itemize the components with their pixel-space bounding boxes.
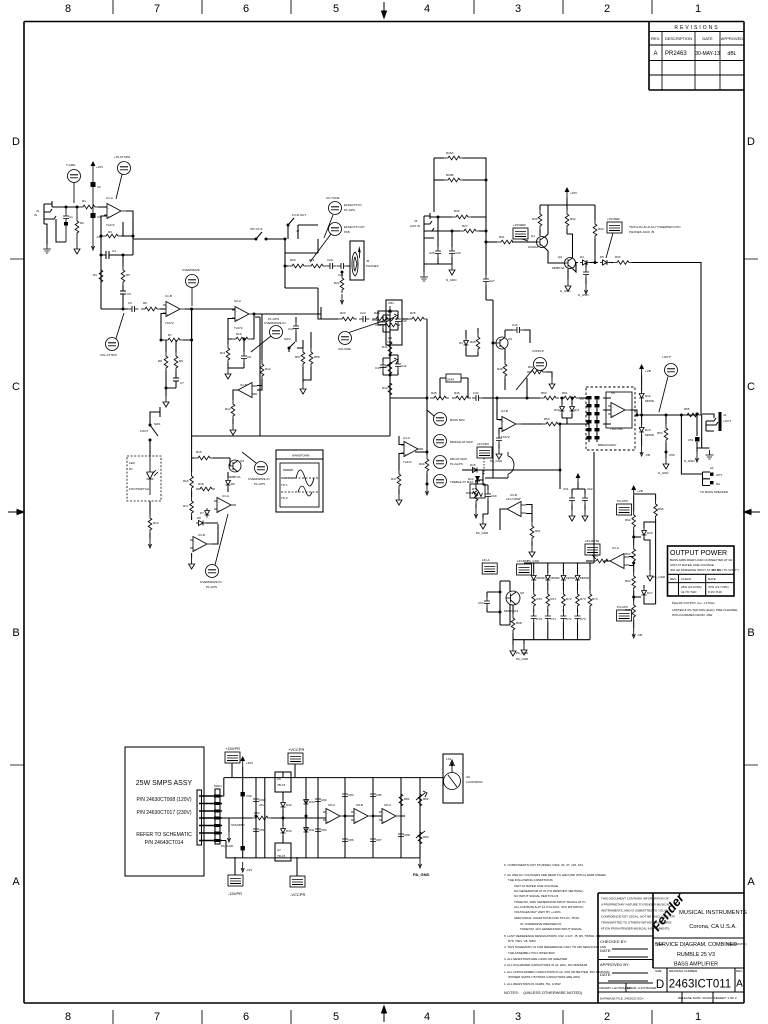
svg-text:MMSD: MMSD (566, 576, 576, 580)
svg-text:C86: C86 (348, 838, 354, 842)
svg-text:C70: C70 (537, 617, 543, 621)
svg-text:C61: C61 (563, 487, 569, 491)
svg-text:R48: R48 (497, 367, 503, 371)
svg-text:400 HZ SINEWAVE INPUT AT 400 M: 400 HZ SINEWAVE INPUT AT 400 MV (TO VOUT… (670, 568, 739, 572)
svg-text:J4: J4 (723, 413, 727, 417)
capacitor C43 (505, 323, 530, 343)
fender logo (649, 890, 688, 934)
wires fan to bus (220, 778, 252, 841)
capacitor C4 (100, 236, 134, 259)
svg-text:SW3: SW3 (284, 337, 291, 341)
vertical bus from U1B out down (191, 309, 193, 436)
svg-text:C80: C80 (259, 798, 265, 802)
waveform graph box (276, 450, 323, 512)
svg-text:C85: C85 (376, 793, 382, 797)
svg-text:R57: R57 (295, 355, 301, 359)
diode D6 (226, 472, 236, 492)
output jack J4 (684, 412, 731, 463)
svg-text:C71: C71 (551, 617, 557, 621)
svg-text:R63: R63 (625, 552, 631, 556)
svg-text:IN: OVERDRIVE PRESSED IN: IN: OVERDRIVE PRESSED IN (520, 922, 561, 926)
svg-text:+VCCPR: +VCCPR (288, 747, 304, 752)
ground bus jack (697, 415, 710, 448)
svg-text:D: D (747, 136, 755, 148)
ground R22 (340, 294, 343, 304)
svg-text:R12: R12 (265, 367, 271, 371)
svg-text:U8-C: U8-C (384, 803, 392, 807)
arc jumper (508, 452, 514, 478)
dashed footswitch box (127, 456, 161, 501)
svg-text:DATE: DATE (702, 36, 713, 41)
svg-text:LIN-BSY: LIN-BSY (517, 559, 529, 563)
capacitor C60 (483, 485, 497, 514)
svg-text:U8-A: U8-A (328, 803, 335, 807)
wire emitter bus (573, 263, 579, 273)
resistor R49 column (415, 398, 429, 495)
svg-text:Q3: Q3 (240, 459, 244, 463)
capacitor C30 (578, 263, 589, 298)
diode D7 (200, 508, 210, 518)
wire op-amp chain (345, 815, 405, 817)
svg-text:R27: R27 (462, 224, 468, 228)
svg-text:R55: R55 (684, 407, 690, 411)
svg-text:C62: C62 (587, 487, 593, 491)
resistor bank (532, 583, 542, 610)
svg-text:P3-GPK: P3-GPK (617, 605, 628, 609)
svg-text:D8: D8 (197, 516, 201, 520)
svg-text:VR1: VR1 (388, 301, 394, 305)
LED D1 (147, 456, 154, 495)
svg-text:TONE/VM, 100V GENERATOR INPUT: TONE/VM, 100V GENERATOR INPUT SIGNAL AT … (514, 900, 585, 904)
svg-text:U2-B: U2-B (240, 383, 247, 387)
capacitor C84 (342, 790, 354, 801)
ground C60 (476, 514, 489, 535)
svg-text:R26A: R26A (446, 151, 454, 155)
ground overdrive (189, 553, 195, 569)
+V clamp column (639, 365, 655, 457)
svg-text:D11: D11 (574, 408, 580, 412)
resistor R26 (452, 209, 486, 242)
svg-text:C22: C22 (360, 311, 366, 315)
svg-text:U1-A: U1-A (106, 196, 113, 200)
connector P5 pins (197, 784, 222, 845)
diode D13 (639, 425, 655, 437)
svg-text:A: A (747, 876, 755, 888)
wire chain to pot (386, 318, 391, 320)
svg-text:41.7% THD: 41.7% THD (681, 590, 697, 594)
resistor R12 (257, 314, 271, 390)
svg-text:EFFECTS IN: EFFECTS IN (344, 203, 362, 207)
svg-text:7: 7 (154, 1011, 160, 1023)
capacitor C83 (315, 825, 327, 836)
capacitor C80 (253, 795, 265, 807)
svg-text:R22: R22 (334, 281, 340, 285)
svg-text:C26: C26 (455, 251, 461, 255)
svg-text:PA_GND: PA_GND (476, 531, 489, 535)
resistor R42 (382, 358, 392, 377)
svg-text:ADDITIONAL CONDITIONS FOR TP4-: ADDITIONAL CONDITIONS FOR TP4-U1, TP40: (514, 916, 580, 920)
boxed label P2-HPS (513, 223, 528, 241)
svg-text:U3-A: U3-A (612, 546, 619, 550)
svg-text:RELEASE DATE: 30-MAY-13: RELEASE DATE: 30-MAY-13 (678, 996, 717, 1000)
svg-text:*WITH PLUG FULLY INSERTED INTO: *WITH PLUG FULLY INSERTED INTO (629, 225, 681, 229)
capacitor C82 (315, 795, 327, 806)
svg-text:3: 3 (515, 3, 521, 15)
svg-text:INT FX-S: INT FX-S (250, 227, 262, 231)
svg-text:A PROPRIETARY NATURE TO FENDER: A PROPRIETARY NATURE TO FENDER MUSICAL (601, 903, 670, 907)
svg-text:TP-1: TP-1 (281, 483, 288, 487)
ground bank (516, 640, 529, 661)
resistor R53 (542, 417, 561, 426)
diode D8 (196, 516, 206, 526)
svg-text:R62: R62 (625, 518, 631, 522)
vertical bus to overdrive (191, 436, 193, 458)
connector circle OVERDRIVE IN (251, 317, 286, 352)
svg-text:R54: R54 (657, 431, 663, 435)
connector circle VOL AT 50% (100, 313, 124, 357)
pot circle BASS (427, 398, 465, 426)
bottom center arrow (382, 1006, 387, 1022)
svg-text:U6: U6 (277, 777, 281, 781)
resistor R62 (625, 511, 636, 530)
volume pot box VR1 (386, 300, 402, 345)
svg-text:C25: C25 (429, 251, 435, 255)
resistor R21 (307, 258, 326, 268)
resistor R64 (625, 572, 636, 591)
zone numbers top (65, 3, 701, 15)
diode D31 (304, 825, 315, 835)
diode D17 (634, 585, 656, 604)
capacitor C5 (120, 291, 131, 309)
svg-text:R15: R15 (196, 450, 202, 454)
resistor R23 (338, 311, 357, 321)
capacitor C8 (241, 338, 251, 369)
connector circle +15V REF (114, 155, 131, 199)
earth ground jack (706, 450, 714, 459)
op-amp U8C (379, 803, 401, 824)
svg-text:PA_GND: PA_GND (490, 459, 503, 463)
connector circle OVERDRIVE OUT (200, 514, 228, 589)
pot circle TREBLE (434, 475, 474, 488)
svg-text:C72: C72 (566, 617, 572, 621)
op-amp U1B (163, 294, 185, 325)
svg-text:C88: C88 (404, 833, 410, 837)
svg-text:TONE/VM, 1KV GENERATOR INPUT S: TONE/VM, 1KV GENERATOR INPUT SIGNAL (520, 927, 582, 931)
diode D11 (562, 397, 580, 425)
capacitor C45 (375, 358, 390, 375)
svg-text:B: B (12, 627, 19, 639)
svg-text:MIDDLE AT MAX: MIDDLE AT MAX (450, 440, 473, 444)
svg-text:Q4: Q4 (508, 337, 512, 341)
wire jack sleeve down (44, 219, 66, 244)
svg-text:MAIN: MAIN (214, 784, 222, 788)
svg-text:R61: R61 (535, 529, 541, 533)
+15V rail (540, 188, 595, 205)
svg-text:LIN-MUTE: LIN-MUTE (585, 539, 599, 543)
wire bus to speaker (442, 776, 444, 778)
transistor Q3 (228, 458, 244, 479)
switch SW3 (284, 337, 303, 352)
svg-text:2: 2 (604, 1011, 610, 1023)
svg-text:C: C (747, 381, 755, 393)
svg-text:D32: D32 (286, 803, 292, 807)
svg-text:C23: C23 (288, 327, 294, 331)
boxed label -VB label (617, 605, 632, 621)
svg-text:DATE: DATE (708, 577, 716, 581)
svg-text:D30: D30 (309, 800, 315, 804)
op-amp U2A (232, 299, 254, 330)
left zone ticks (10, 259, 24, 765)
ground U1B fb (163, 396, 169, 407)
svg-text:P/N 24643CT014: P/N 24643CT014 (145, 840, 184, 846)
svg-text:U4-A: U4-A (403, 436, 410, 440)
svg-text:C7: C7 (180, 381, 184, 385)
svg-text:C82: C82 (321, 798, 327, 802)
wire U2B inputs (257, 379, 262, 386)
svg-text:THE ASSEMBLY P/N LISTED BOX: THE ASSEMBLY P/N LISTED BOX (508, 951, 555, 955)
svg-text:P/N 24630CT008 (120V): P/N 24630CT008 (120V) (136, 797, 191, 803)
svg-text:R73: R73 (580, 597, 586, 601)
svg-text:FOOTSWITCH: FOOTSWITCH (129, 487, 149, 491)
svg-text:N_GND: N_GND (578, 293, 589, 297)
svg-text:RUMBLE 25 V3: RUMBLE 25 V3 (677, 952, 715, 958)
svg-text:3. ALL RESISTORS ARE 1/16W OR: 3. ALL RESISTORS ARE 1/16W OR GREATER (504, 957, 568, 961)
svg-text:C50: C50 (669, 453, 675, 457)
boxed label MUTE3 (482, 558, 497, 574)
feedback loop U1A (93, 216, 135, 309)
resistor R55 (683, 407, 702, 417)
ground arrow jack (684, 448, 699, 463)
resistor R41 (382, 338, 392, 357)
svg-text:U8-B: U8-B (356, 803, 363, 807)
boxed label PS4 (290, 857, 305, 897)
svg-text:REV.: REV. (736, 969, 743, 973)
resistor R17 (183, 491, 193, 520)
svg-text:R83: R83 (423, 835, 429, 839)
lower chain wire y319 (318, 307, 338, 319)
resistor R10 (228, 332, 254, 341)
bus into tone amp (390, 397, 427, 399)
svg-text:R5: R5 (126, 273, 130, 277)
svg-text:C2: C2 (97, 185, 101, 189)
svg-text:P1-GLPS: P1-GLPS (450, 462, 463, 466)
U1B feedback network (158, 309, 193, 407)
switch SW2-B (287, 213, 307, 239)
svg-text:D16: D16 (647, 531, 653, 535)
bottom zone ticks (113, 1010, 652, 1024)
svg-text:LED: LED (129, 461, 136, 465)
svg-text:D12: D12 (645, 394, 651, 398)
capacitor C81 (253, 825, 265, 836)
diode D3 (459, 330, 478, 356)
ground power row (413, 847, 429, 877)
diode D14 (468, 476, 480, 484)
capacitor C87 (370, 835, 382, 846)
resistor R30 (532, 205, 542, 236)
boxed label PS3 (228, 857, 243, 896)
svg-text:-VCCPR: -VCCPR (290, 892, 305, 897)
svg-text:+15VREF: +15VREF (513, 223, 526, 227)
svg-text:R46: R46 (454, 391, 460, 395)
vertical feed to mixer (485, 242, 487, 275)
top zone ticks (113, 0, 652, 14)
bottom bus power row (226, 841, 420, 858)
boxed label MUTE2 (517, 559, 532, 575)
svg-text:C87: C87 (376, 838, 382, 842)
transistor Q1 (528, 234, 548, 249)
resistor R48 (497, 349, 507, 390)
svg-text:1. ALL RESISTORS IN OHMS, 5%,: 1. ALL RESISTORS IN OHMS, 5%, 1/16W (504, 982, 561, 986)
svg-text:P3: P3 (580, 397, 584, 401)
capacitor C25 (429, 216, 441, 265)
svg-text:D17: D17 (647, 591, 653, 595)
svg-text:R2: R2 (80, 221, 84, 225)
svg-text:R31: R31 (499, 235, 505, 239)
note text phones (629, 225, 681, 234)
svg-text:D: D (656, 979, 664, 991)
resistor R4 (93, 266, 103, 285)
svg-text:R18: R18 (198, 482, 204, 486)
resistor R40 (372, 311, 400, 327)
svg-text:R49: R49 (419, 462, 425, 466)
svg-text:CONN-P: CONN-P (532, 349, 544, 353)
vertical risers (256, 778, 420, 858)
resistor R16 (183, 458, 193, 491)
svg-text:UNIT AT RATED LINE VOLTAGE: UNIT AT RATED LINE VOLTAGE (514, 884, 558, 888)
capacitor C6 (128, 301, 139, 312)
svg-text:R20: R20 (290, 258, 296, 262)
svg-text:(POWER SUPPLY BYPASS CAPACITOR: (POWER SUPPLY BYPASS CAPACITORS ARE 20%) (508, 975, 580, 979)
svg-text:BASS AMPLIFIER: BASS AMPLIFIER (674, 962, 718, 968)
svg-text:R74: R74 (592, 597, 598, 601)
resistor R9 (174, 340, 183, 378)
op-amp U1A (104, 196, 126, 227)
svg-text:BREAKAWAY: BREAKAWAY (598, 443, 617, 447)
earth ground at input (43, 244, 51, 253)
svg-text:VOLUME: VOLUME (338, 347, 351, 351)
wire x493 down (485, 398, 508, 478)
resistor R45 (430, 391, 449, 400)
bottom bus mute bank (513, 639, 590, 641)
svg-text:78L15: 78L15 (277, 783, 286, 787)
resistor R26B (434, 173, 488, 182)
right center arrow (744, 510, 760, 515)
svg-text:+VB: +VB (637, 489, 643, 493)
svg-text:OVERDRIVE IN: OVERDRIVE IN (248, 477, 270, 481)
wire to U1B (160, 308, 166, 310)
svg-text:D13: D13 (645, 428, 651, 432)
resistor R32 (565, 205, 576, 234)
capacitor C85 (370, 790, 382, 801)
svg-text:R16: R16 (183, 479, 189, 483)
svg-text:-VB: -VB (645, 453, 650, 457)
zone letters left (12, 136, 20, 888)
svg-text:MMBT4A: MMBT4A (552, 266, 565, 270)
svg-text:5: 5 (333, 3, 339, 15)
resistor R80 (252, 811, 326, 820)
svg-text:PA_GND: PA_GND (653, 575, 666, 579)
svg-text:R47: R47 (391, 477, 397, 481)
svg-text:MID AT MAX: MID AT MAX (450, 457, 467, 461)
op-amp U8A (323, 803, 345, 824)
transistor Q4 (492, 337, 513, 349)
svg-text:D4: D4 (580, 255, 584, 259)
op-amp U2B (235, 383, 257, 398)
capacitor C50 (665, 450, 675, 458)
svg-text:R17: R17 (183, 504, 189, 508)
svg-text:R14: R14 (153, 521, 159, 525)
svg-text:T-GRN: T-GRN (66, 163, 75, 167)
op-amp U4A (399, 436, 423, 464)
resistor R25 (402, 311, 427, 398)
svg-text:C1: C1 (69, 215, 73, 219)
wire Q1 base (512, 241, 537, 243)
svg-text:PA_GND: PA_GND (516, 657, 529, 661)
resistor R74 (588, 563, 598, 640)
svg-text:R24: R24 (374, 311, 380, 315)
ground for C1 R2 (74, 243, 80, 254)
resistor R11 (220, 339, 230, 368)
svg-text:47u: 47u (259, 803, 264, 807)
svg-text:C83: C83 (321, 828, 327, 832)
op-amp U3B (190, 523, 218, 552)
svg-text:U1-B: U1-B (165, 294, 172, 298)
svg-text:MMSD: MMSD (551, 576, 561, 580)
capacitor C26 (449, 230, 461, 265)
svg-text:D10: D10 (554, 408, 560, 412)
svg-text:I-OUT*: I-OUT* (662, 355, 672, 359)
svg-text:C60: C60 (491, 494, 497, 498)
svg-text:CLEAN: CLEAN (681, 577, 691, 581)
svg-text:TL072: TL072 (234, 326, 243, 330)
wire R1 to U1A (98, 206, 107, 208)
svg-text:R41: R41 (382, 345, 388, 349)
svg-text:PA_GND: PA_GND (221, 844, 234, 848)
resistor R15 (192, 450, 230, 460)
svg-text:Q5: Q5 (520, 591, 524, 595)
connector circle MAIN VOL (338, 321, 383, 351)
resistor R68 (511, 605, 522, 640)
input jack J1 (34, 201, 56, 224)
svg-text:2K49: 2K49 (447, 378, 454, 382)
svg-text:25W (10.0VPA): 25W (10.0VPA) (681, 585, 702, 589)
resistor R67 (586, 554, 611, 563)
resistor R8 (158, 340, 168, 396)
svg-text:NOTES: (UNLESS OTHERWISE NO: NOTES: (UNLESS OTHERWISE NOTED) (504, 990, 583, 995)
svg-text:U3-B: U3-B (198, 533, 205, 537)
svg-text:C20: C20 (327, 258, 333, 262)
diode D23 (575, 573, 590, 583)
svg-text:47W (13.7VPA): 47W (13.7VPA) (708, 585, 729, 589)
svg-text:R50: R50 (541, 391, 547, 395)
svg-text:R26B: R26B (446, 173, 454, 177)
svg-text:R6: R6 (143, 301, 147, 305)
pot wiper bass (386, 314, 398, 322)
svg-text:(SCHEMATIC): (SCHEMATIC) (727, 942, 746, 946)
connector circle EFFECTS RETURN (310, 223, 365, 263)
svg-text:R51: R51 (562, 391, 568, 395)
svg-text:C21: C21 (338, 273, 344, 277)
svg-text:C27: C27 (489, 279, 495, 283)
svg-text:C63: C63 (478, 601, 484, 605)
capacitor bank feed caps (563, 487, 575, 521)
capacitor C44 (375, 315, 390, 332)
boxed label PS2 (288, 747, 304, 777)
connector pin ladder P3 (580, 396, 600, 442)
zone letters right (747, 136, 755, 888)
capacitor C1 (63, 206, 73, 243)
svg-text:C5: C5 (127, 292, 131, 296)
